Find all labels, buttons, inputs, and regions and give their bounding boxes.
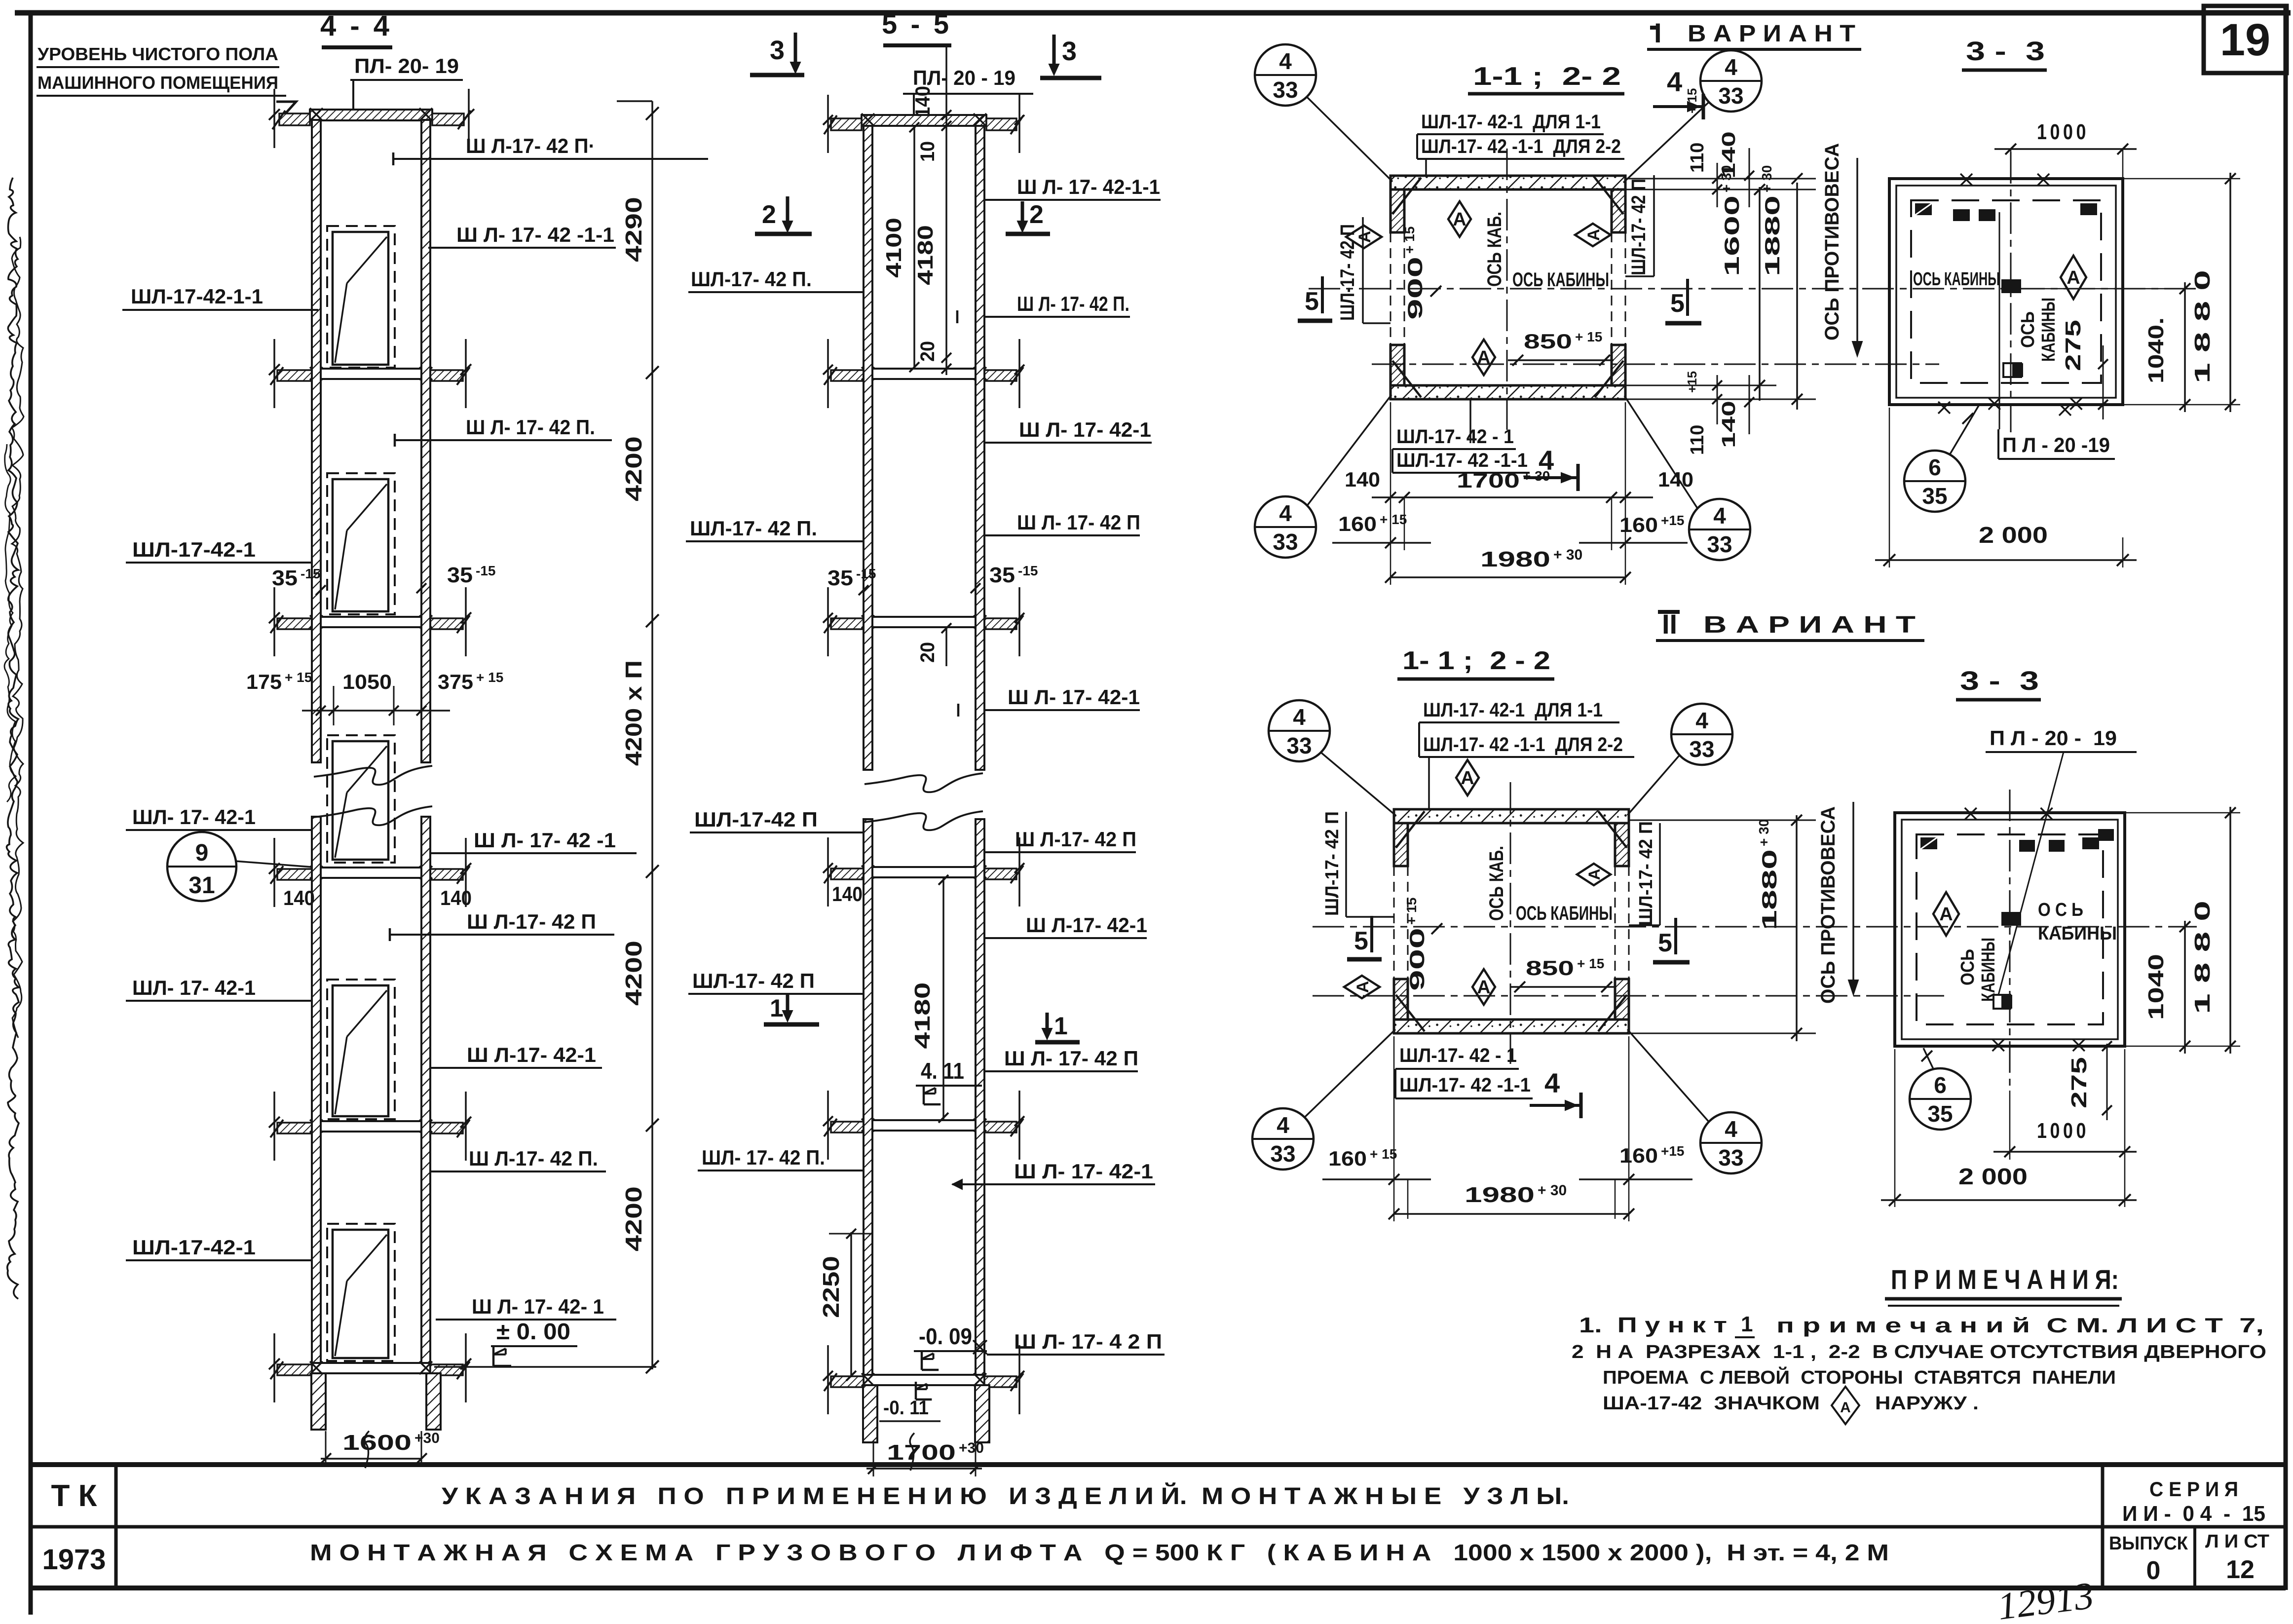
svg-text:С Е Р И Я: С Е Р И Я bbox=[2149, 1477, 2238, 1501]
svg-text:+15: +15 bbox=[1685, 371, 1699, 393]
margin handwriting (illegible) bbox=[7, 178, 19, 1299]
svg-text:В А Р И А Н Т: В А Р И А Н Т bbox=[1688, 21, 1855, 47]
door opening (dashed) with door leaf bbox=[327, 473, 395, 614]
svg-text:П Л - 20 - 19: П Л - 20 - 19 bbox=[1990, 726, 2117, 750]
svg-text:1980: 1980 bbox=[1480, 547, 1550, 571]
3-3 I: cab axis marks bbox=[2001, 279, 2021, 293]
section 5-5 right wall lower bbox=[976, 819, 984, 1375]
svg-text:КАБИНЫ: КАБИНЫ bbox=[1978, 938, 1999, 1002]
section 4-4 vertical dimension line 4200s bbox=[651, 101, 653, 1369]
section mark 3 (right) bbox=[1053, 35, 1056, 71]
svg-text:20: 20 bbox=[917, 341, 939, 362]
callout circle 4/33 (I bottom-left) bbox=[1255, 496, 1316, 558]
svg-text:4: 4 bbox=[1667, 66, 1682, 97]
svg-text:140: 140 bbox=[911, 86, 934, 117]
svg-text:Ш Л- 17- 42-1: Ш Л- 17- 42-1 bbox=[1008, 685, 1140, 709]
svg-text:2 Н А РАЗРЕЗАХ 1-1 , 2-2: 2 Н А РАЗРЕЗАХ 1-1 , 2-2 В СЛУЧАЕ ОТСУТС… bbox=[1572, 1342, 2266, 1362]
svg-text:1- 1 ; 2 - 2: 1- 1 ; 2 - 2 bbox=[1402, 646, 1550, 675]
svg-text:6: 6 bbox=[1928, 454, 1941, 480]
svg-text:-15: -15 bbox=[301, 566, 320, 581]
svg-text:6: 6 bbox=[1934, 1072, 1947, 1098]
5-5 slab 4 dim verticals bbox=[827, 837, 829, 906]
section 5-5 break symbol bbox=[865, 773, 983, 792]
svg-text:ШЛ-17- 42 П.: ШЛ-17- 42 П. bbox=[691, 267, 812, 291]
diamond marker A (top wall, II) bbox=[1456, 760, 1479, 795]
svg-text:А: А bbox=[1461, 768, 1474, 789]
diamond marker A (left outside, II) bbox=[1344, 976, 1380, 998]
svg-text:МАШИННОГО ПОМЕЩЕНИЯ: МАШИННОГО ПОМЕЩЕНИЯ bbox=[38, 73, 278, 93]
5-5 slab 3 joint ticks bbox=[862, 615, 874, 628]
svg-text:110: 110 bbox=[1687, 143, 1708, 173]
svg-text:1880: 1880 bbox=[1758, 849, 1781, 930]
svg-text:ОСЬ: ОСЬ bbox=[2018, 311, 2038, 348]
5-5 slab 5 dim verticals bbox=[827, 1091, 829, 1160]
svg-text:± 0. 00: ± 0. 00 bbox=[496, 1319, 570, 1344]
plan 3-3 (I): outer shaft walls bbox=[1889, 179, 2123, 405]
svg-text:33: 33 bbox=[1273, 77, 1298, 103]
leader from box to top wall bbox=[1425, 159, 1427, 184]
svg-text:10: 10 bbox=[917, 141, 939, 162]
page number box bbox=[2204, 6, 2287, 73]
leader to top slab bbox=[352, 80, 354, 110]
dim label 4200 bbox=[621, 1186, 646, 1251]
svg-text:Ш Л-17- 42-1: Ш Л-17- 42-1 bbox=[467, 1043, 596, 1066]
section 5-5 floor slab level 4 bbox=[864, 867, 984, 877]
svg-text:Ш Л- 17- 42 -1: Ш Л- 17- 42 -1 bbox=[474, 829, 616, 852]
section 5-5 floor slab level 5 bbox=[864, 1120, 984, 1131]
3-3 I: diamond A bbox=[2061, 256, 2086, 299]
svg-text:I: I bbox=[1654, 17, 1662, 48]
plan 3-3 (II): x ticks on walls bbox=[1965, 808, 1977, 820]
svg-text:Л И СТ: Л И СТ bbox=[2205, 1531, 2269, 1552]
section 4-4 top slab stubs bbox=[279, 113, 310, 125]
section 5-5 left wall upper bbox=[864, 126, 872, 770]
plan I: vertical cab centerline bbox=[1506, 149, 1508, 430]
svg-text:ШЛ-17- 42 П: ШЛ-17- 42 П bbox=[1636, 821, 1656, 926]
svg-text:Ш Л- 17- 42- 1: Ш Л- 17- 42- 1 bbox=[472, 1295, 604, 1318]
3-3 II: dim 1040 bbox=[2184, 921, 2186, 1054]
dim label 4180 lower bbox=[910, 982, 935, 1049]
svg-text:5: 5 bbox=[1354, 927, 1368, 955]
svg-text:ОСЬ КАБИНЫ: ОСЬ КАБИНЫ bbox=[1512, 269, 1609, 291]
svg-text:О С Ь: О С Ь bbox=[2038, 900, 2083, 920]
plan II: corner diagonals bbox=[1396, 811, 1425, 848]
svg-text:ОСЬ КАБ.: ОСЬ КАБ. bbox=[1484, 212, 1505, 287]
svg-text:А: А bbox=[1353, 981, 1372, 993]
title block: vypusk/list divider bbox=[2193, 1527, 2196, 1588]
svg-text:ШЛ-17- 42 - 1: ШЛ-17- 42 - 1 bbox=[1396, 426, 1514, 448]
title block bottom line bbox=[33, 1586, 2286, 1590]
svg-text:-15: -15 bbox=[856, 566, 876, 581]
label ОСЬ ПРОТИВОВЕСА (I) bbox=[1821, 143, 1843, 340]
3-3 I: dim 275 bbox=[2103, 345, 2104, 419]
svg-text:Ш Л- 17- 42 П: Ш Л- 17- 42 П bbox=[1004, 1047, 1138, 1070]
svg-text:+ 15: + 15 bbox=[1577, 956, 1604, 971]
svg-text:ОСЬ КАБИНЫ: ОСЬ КАБИНЫ bbox=[1516, 903, 1613, 924]
svg-text:1: 1 bbox=[770, 994, 784, 1022]
leader bbox=[1307, 395, 1391, 506]
dim label 4290 bbox=[621, 197, 646, 262]
label ОСЬ КАБ. (vertical, I) bbox=[1484, 212, 1505, 287]
svg-text:4: 4 bbox=[1279, 500, 1292, 526]
dim 2250 (5-5) bbox=[850, 1232, 852, 1377]
callout leader bbox=[235, 861, 312, 867]
svg-text:33: 33 bbox=[1286, 733, 1312, 758]
svg-text:+ 15: + 15 bbox=[1685, 88, 1699, 113]
callout circle 4/33 (I top-right) bbox=[1700, 50, 1762, 112]
3-3 II leader bbox=[1998, 752, 2064, 995]
5-5 slab 4 joint ticks bbox=[862, 866, 874, 878]
door opening (dashed) with door leaf bbox=[327, 980, 395, 1119]
svg-text:ШЛ- 17- 42-1: ШЛ- 17- 42-1 bbox=[132, 805, 256, 829]
svg-text:+15: +15 bbox=[1661, 1143, 1685, 1159]
svg-text:140: 140 bbox=[440, 886, 472, 909]
svg-text:+ 30: + 30 bbox=[1756, 819, 1771, 846]
leader bbox=[1307, 97, 1392, 182]
svg-text:У К А З А Н И Я П О П Р И: У К А З А Н И Я П О П Р И М Е Н Е Н И Ю … bbox=[442, 1482, 1569, 1510]
section 5-5 top slab bbox=[862, 115, 986, 126]
svg-text:+ 15: + 15 bbox=[1575, 329, 1602, 344]
svg-text:+ 15: + 15 bbox=[1404, 898, 1419, 925]
svg-text:110: 110 bbox=[1687, 425, 1708, 455]
3-3 II: dim 275 (below) bbox=[2106, 1044, 2108, 1120]
handwritten number 12913 bbox=[1995, 1574, 2096, 1624]
3-3 I: x ticks bottom bbox=[1938, 402, 1950, 414]
svg-text:31: 31 bbox=[188, 872, 215, 899]
svg-text:Ш Л-17- 42 П·: Ш Л-17- 42 П· bbox=[466, 134, 595, 157]
leader bbox=[1627, 755, 1680, 815]
leader bbox=[1624, 396, 1697, 508]
svg-text:33: 33 bbox=[1718, 1145, 1743, 1171]
vertical label ШЛ-17-42П (I right) bbox=[1628, 179, 1650, 275]
svg-text:ШЛ-17-42 П: ШЛ-17-42 П bbox=[694, 808, 818, 831]
5-5 slab 2 dim verticals bbox=[827, 339, 829, 408]
svg-text:Т К: Т К bbox=[51, 1479, 97, 1513]
label ОСЬ ПРОТИВОВЕСА (II) bbox=[1817, 806, 1839, 1004]
svg-text:2: 2 bbox=[1029, 200, 1044, 229]
plan II: bottom wall panel (hatched) bbox=[1394, 1020, 1629, 1033]
svg-text:140: 140 bbox=[1719, 401, 1739, 448]
door opening (dashed) with door leaf bbox=[327, 735, 395, 863]
svg-text:ШЛ-17- 42 -1-1 ДЛЯ 2-2: ШЛ-17- 42 -1-1 ДЛЯ 2-2 bbox=[1421, 136, 1621, 157]
svg-text:ШЛ-17- 42 П: ШЛ-17- 42 П bbox=[692, 969, 815, 992]
svg-text:Ш Л- 17- 4 2 П: Ш Л- 17- 4 2 П bbox=[1014, 1330, 1162, 1353]
svg-text:4 - 4: 4 - 4 bbox=[320, 10, 392, 42]
svg-text:3: 3 bbox=[1062, 37, 1077, 66]
svg-text:4: 4 bbox=[1279, 48, 1292, 74]
interior dim line 4100 bbox=[913, 126, 915, 369]
svg-text:140: 140 bbox=[832, 882, 863, 906]
svg-text:Ш Л- 17- 42 П: Ш Л- 17- 42 П bbox=[1017, 511, 1140, 534]
plan II: right wall lower segment bbox=[1615, 979, 1629, 1020]
dims 110+15 / 140 (I top right) bbox=[1685, 88, 1708, 173]
3-3 II: dim 1880 (right) bbox=[2229, 807, 2231, 1054]
svg-text:-0. 09: -0. 09 bbox=[919, 1323, 972, 1349]
svg-text:А: А bbox=[1585, 869, 1603, 880]
leader from II bottom-left circle bbox=[1305, 1029, 1395, 1117]
svg-text:275: 275 bbox=[2067, 1057, 2091, 1108]
plan 3-3 (II): inner dashed car outline bbox=[1917, 834, 2103, 1024]
dim 1880+30 (II right) bbox=[1796, 815, 1798, 1041]
svg-text:1. П у н к т: 1. П у н к т bbox=[1579, 1313, 1727, 1337]
section 4-4 top slab ПЛ-20-19 (hatched) bbox=[310, 110, 432, 120]
svg-text:1700: 1700 bbox=[1457, 469, 1520, 492]
title block middle line bbox=[33, 1525, 2286, 1529]
svg-text:35: 35 bbox=[1927, 1101, 1953, 1127]
svg-text:Ш Л- 17- 42-1-1: Ш Л- 17- 42-1-1 bbox=[1017, 175, 1160, 198]
svg-text:А: А bbox=[1477, 347, 1490, 368]
plan I right dims 1600+30 and 1880+30 bbox=[1759, 187, 1761, 401]
door opening (dashed) with door leaf bbox=[327, 226, 395, 368]
leader bbox=[1623, 103, 1708, 183]
svg-text:ШЛ-17- 42 П: ШЛ-17- 42 П bbox=[1628, 179, 1650, 275]
leader from box to bottom wall bbox=[1469, 400, 1471, 443]
svg-text:160: 160 bbox=[1338, 512, 1377, 535]
5-5 pit break squiggle bbox=[910, 1433, 914, 1471]
svg-text:ША-17-42 ЗНАЧКОМ: ША-17-42 ЗНАЧКОМ bbox=[1603, 1393, 1820, 1414]
svg-text:+ 30: + 30 bbox=[1538, 1182, 1567, 1199]
section mark 1 (right) bbox=[1046, 1013, 1049, 1035]
plan I: left wall upper segment bbox=[1391, 189, 1404, 232]
svg-text:ОСЬ: ОСЬ bbox=[1957, 949, 1978, 985]
plan I: right wall upper segment bbox=[1612, 189, 1625, 232]
svg-text:ШЛ-17- 42 -1-1: ШЛ-17- 42 -1-1 bbox=[1399, 1074, 1531, 1096]
svg-text:Ш Л- 17- 42 П.: Ш Л- 17- 42 П. bbox=[1017, 292, 1129, 315]
svg-text:4100: 4100 bbox=[882, 218, 906, 278]
svg-text:+30: +30 bbox=[414, 1430, 440, 1446]
slab 4 joint ticks bbox=[310, 866, 323, 879]
svg-text:1000: 1000 bbox=[2037, 1119, 2089, 1143]
svg-text:Ш Л- 17- 42 П.: Ш Л- 17- 42 П. bbox=[466, 415, 595, 439]
vertical label ШЛ-17-42П (II left) bbox=[1322, 811, 1343, 916]
ground line to dim line bbox=[434, 1366, 656, 1368]
plan I counterweight horizontal line bbox=[1372, 364, 1939, 365]
svg-text:1000: 1000 bbox=[2037, 120, 2089, 144]
svg-text:В А Р И А Н Т: В А Р И А Н Т bbox=[1703, 612, 1916, 638]
svg-text:ШЛ-17- 42 -1-1: ШЛ-17- 42 -1-1 bbox=[1396, 450, 1528, 471]
section 5-5 left wall lower bbox=[864, 819, 872, 1375]
svg-text:+30: +30 bbox=[959, 1440, 984, 1456]
title block top line bbox=[33, 1462, 2286, 1467]
svg-text:33: 33 bbox=[1707, 531, 1732, 557]
svg-text:Ш Л-17- 42-1: Ш Л-17- 42-1 bbox=[1026, 913, 1147, 937]
3-3 I: dim 1040 bbox=[2184, 282, 2186, 412]
svg-text:А: А bbox=[1453, 209, 1466, 230]
svg-text:275: 275 bbox=[2061, 320, 2085, 371]
plan 1-1,2-2 variant I: top wall panel (hatched) bbox=[1391, 176, 1625, 189]
plan I: left wall door jamb (open part) bbox=[1390, 232, 1391, 345]
slab 5 stub dimension verticals bbox=[273, 1092, 275, 1161]
sheet top border bbox=[15, 10, 2291, 16]
plan 3-3 (I): x ticks on walls bbox=[1960, 174, 1972, 186]
svg-text:4: 4 bbox=[1695, 708, 1708, 733]
3-3 II: rail bracket pair (top) bbox=[2019, 840, 2035, 852]
svg-text:ШЛ-17- 42-1 ДЛЯ 1-1: ШЛ-17- 42-1 ДЛЯ 1-1 bbox=[1423, 699, 1603, 721]
svg-text:И И - 0 4 - 15: И И - 0 4 - 15 bbox=[2122, 1502, 2265, 1526]
dim label 4100 bbox=[882, 218, 906, 278]
plan I cab horizontal centerline bbox=[1309, 288, 2197, 290]
plan II: left wall door jamb (open part) bbox=[1393, 866, 1395, 979]
callout circle 4/33 (II top-right) bbox=[1671, 704, 1732, 765]
dim label 10 bbox=[917, 141, 939, 162]
5-5 slab 5 joint ticks bbox=[862, 1119, 874, 1132]
3-3 II: callout circle 6/35 bbox=[1910, 1068, 1971, 1130]
svg-text:33: 33 bbox=[1273, 529, 1298, 555]
section 4-4 left wall (hatched, upper part) bbox=[312, 120, 321, 762]
dim label 4180 bbox=[913, 225, 938, 285]
sheet left border bbox=[29, 13, 33, 1615]
svg-text:5: 5 bbox=[1305, 287, 1319, 316]
plan 3-3 (II): corner guide marks bbox=[1920, 837, 1937, 849]
leader bbox=[1320, 752, 1395, 815]
5-5 slab 2 joint ticks bbox=[862, 367, 874, 380]
svg-text:4200: 4200 bbox=[621, 436, 646, 501]
slab 4 stub dimension verticals bbox=[273, 838, 275, 907]
interior dim line 4180 lower bbox=[942, 878, 944, 1119]
svg-text:33: 33 bbox=[1270, 1141, 1295, 1167]
3-3 II: label ОСЬ КАБИНЫ (vertical) bbox=[1957, 949, 1978, 985]
svg-text:ШЛ-17- 42 П: ШЛ-17- 42 П bbox=[1337, 224, 1358, 321]
svg-text:4180: 4180 bbox=[913, 225, 938, 285]
svg-text:1700: 1700 bbox=[887, 1440, 956, 1465]
3-3 II: vertical cab centerline bbox=[2009, 790, 2011, 1090]
svg-text:4: 4 bbox=[1544, 1067, 1560, 1098]
svg-text:160: 160 bbox=[1619, 1144, 1658, 1167]
sheet right border bbox=[2284, 6, 2288, 1590]
svg-text:35: 35 bbox=[989, 563, 1015, 587]
svg-text:П Р И М Е Ч А Н И Я:: П Р И М Е Ч А Н И Я: bbox=[1891, 1264, 2119, 1295]
svg-text:+ 15: + 15 bbox=[285, 670, 312, 685]
svg-text:п р и м е ч а н и й С М. Л И: п р и м е ч а н и й С М. Л И С Т 7, bbox=[1776, 1314, 2264, 1337]
3-3 II: corner marks bbox=[2098, 829, 2114, 841]
svg-text:3 - 3: 3 - 3 bbox=[1960, 666, 2039, 696]
diamond marker A (right wall, I) bbox=[1575, 224, 1611, 246]
slab 6 joint ticks bbox=[310, 1361, 323, 1374]
svg-text:ОСЬ ПРОТИВОВЕСА: ОСЬ ПРОТИВОВЕСА bbox=[1817, 806, 1839, 1004]
section mark 2 (right) bbox=[1021, 201, 1024, 228]
3-3 I: label ОСЬ КАБИНЫ (vertical) bbox=[2018, 311, 2038, 348]
door opening (dashed) with door leaf bbox=[327, 1224, 395, 1361]
svg-text:4200: 4200 bbox=[621, 1186, 646, 1251]
dim 900+15 (I, rotated) bbox=[1402, 227, 1427, 320]
slab 2 stub dimension verticals bbox=[273, 339, 275, 408]
slab 2 joint ticks bbox=[310, 367, 323, 380]
svg-text:33: 33 bbox=[1718, 83, 1743, 109]
machine-room floor level mark bbox=[276, 102, 299, 120]
svg-text:4290: 4290 bbox=[621, 197, 646, 262]
svg-text:А: А bbox=[1840, 1399, 1851, 1416]
svg-text:19: 19 bbox=[2220, 15, 2270, 65]
svg-text:ПЛ- 20 - 19: ПЛ- 20 - 19 bbox=[913, 66, 1015, 89]
callout circle 4/33 (II bottom-left) bbox=[1252, 1108, 1314, 1170]
slab 6 stub dimension verticals bbox=[273, 1333, 275, 1402]
svg-text:Ш Л- 17- 42-1: Ш Л- 17- 42-1 bbox=[1014, 1160, 1153, 1183]
svg-text:ПЛ- 20- 19: ПЛ- 20- 19 bbox=[354, 54, 459, 77]
svg-text:4. 11: 4. 11 bbox=[921, 1058, 964, 1084]
title block: TK cell divider bbox=[114, 1465, 118, 1588]
svg-text:А: А bbox=[1477, 977, 1490, 998]
svg-text:2250: 2250 bbox=[818, 1256, 844, 1318]
leader bbox=[1627, 1029, 1708, 1121]
svg-text:1040: 1040 bbox=[2144, 954, 2168, 1020]
svg-text:0: 0 bbox=[2146, 1556, 2161, 1585]
svg-text:20: 20 bbox=[917, 642, 939, 663]
section 4-4 pit walls bbox=[311, 1373, 326, 1430]
dim label 20 (below slab3) bbox=[917, 642, 939, 663]
svg-text:ШЛ-17-42-1: ШЛ-17-42-1 bbox=[132, 1236, 256, 1259]
svg-text:2: 2 bbox=[762, 200, 776, 229]
interior dim line 4180 top bbox=[945, 47, 947, 375]
diamond marker A (bottom, I) bbox=[1472, 340, 1495, 375]
svg-text:1600: 1600 bbox=[342, 1431, 412, 1455]
svg-text:140: 140 bbox=[1345, 468, 1380, 491]
svg-text:1 8 8 0: 1 8 8 0 bbox=[2190, 270, 2215, 383]
diamond marker A (left outside, I) bbox=[1346, 226, 1382, 248]
svg-text:УРОВЕНЬ ЧИСТОГО ПОЛА: УРОВЕНЬ ЧИСТОГО ПОЛА bbox=[38, 44, 278, 64]
svg-text:КАБИНЫ: КАБИНЫ bbox=[2038, 923, 2117, 944]
svg-text:1973: 1973 bbox=[42, 1544, 106, 1576]
svg-text:ШЛ- 17- 42-1: ШЛ- 17- 42-1 bbox=[132, 976, 256, 999]
diamond marker A (bottom interior, II) bbox=[1472, 969, 1495, 1005]
svg-text:3 - 3: 3 - 3 bbox=[1966, 37, 2045, 66]
dim label 140 top bbox=[911, 86, 934, 117]
svg-text:140: 140 bbox=[283, 886, 315, 909]
svg-text:4200 х П: 4200 х П bbox=[621, 660, 646, 766]
svg-text:ШЛ-17-42-1-1: ШЛ-17-42-1-1 bbox=[131, 285, 263, 308]
svg-text:А: А bbox=[1939, 904, 1953, 925]
svg-text:140: 140 bbox=[1658, 468, 1693, 491]
svg-text:12: 12 bbox=[2226, 1555, 2255, 1584]
callout circle 4/33 (I bottom-right) bbox=[1689, 499, 1750, 560]
plan II: left wall lower segment bbox=[1394, 979, 1408, 1020]
svg-text:1980: 1980 bbox=[1465, 1183, 1535, 1207]
dim 900+15 (II) bbox=[1404, 898, 1428, 991]
svg-text:900: 900 bbox=[1405, 928, 1428, 991]
svg-text:-15: -15 bbox=[1018, 563, 1038, 578]
section 5-5 floor slab level 6 bbox=[864, 1375, 984, 1385]
svg-text:А: А bbox=[1584, 229, 1603, 241]
svg-text:+ 15: + 15 bbox=[1380, 512, 1407, 527]
svg-text:2 000: 2 000 bbox=[1979, 522, 2048, 548]
svg-text:1-1 ; 2- 2: 1-1 ; 2- 2 bbox=[1473, 62, 1621, 91]
dim label 20 bbox=[917, 341, 939, 362]
title block: right cell divider bbox=[2101, 1465, 2105, 1588]
plan I: left wall lower segment bbox=[1391, 345, 1404, 385]
svg-text:ОСЬ ПРОТИВОВЕСА: ОСЬ ПРОТИВОВЕСА bbox=[1821, 143, 1843, 340]
svg-text:+ 30: + 30 bbox=[1553, 547, 1582, 563]
svg-text:А: А bbox=[2067, 267, 2080, 288]
svg-text:ШЛ- 17- 42 П.: ШЛ- 17- 42 П. bbox=[702, 1146, 825, 1169]
section 4-4 floor slab level 6 bbox=[312, 1363, 430, 1373]
plan I: right wall lower segment bbox=[1612, 345, 1625, 385]
svg-text:ШЛ-17- 42 П: ШЛ-17- 42 П bbox=[1322, 811, 1343, 916]
callout circle 4/33 (I top-left) bbox=[1255, 44, 1316, 106]
plan 1-1,2-2 variant II: top wall panel (hatched) bbox=[1394, 809, 1629, 823]
svg-text:4200: 4200 bbox=[621, 941, 646, 1006]
svg-text:+15: +15 bbox=[1661, 513, 1685, 528]
vertical label ШЛ-17-42П (II right) bbox=[1636, 821, 1656, 926]
svg-text:375: 375 bbox=[438, 670, 473, 693]
callout circle 4/33 (II bottom-right) bbox=[1700, 1112, 1762, 1173]
3-3 I: rail bracket pair (top) bbox=[1953, 209, 1970, 221]
plan II cab horizontal centerline bbox=[1313, 926, 2197, 928]
pit break squiggle bbox=[365, 1431, 369, 1468]
svg-text:35: 35 bbox=[827, 566, 853, 590]
3-3 II: diamond A bbox=[1933, 892, 1959, 936]
diamond marker A (right wall, II) bbox=[1577, 864, 1611, 885]
svg-text:4: 4 bbox=[1725, 54, 1737, 80]
svg-text:Ш Л-17- 42 П: Ш Л-17- 42 П bbox=[467, 910, 596, 933]
